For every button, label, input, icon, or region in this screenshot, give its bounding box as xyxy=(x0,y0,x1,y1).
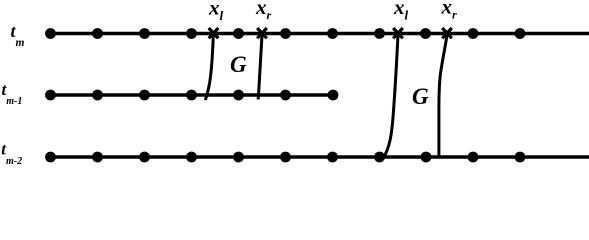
svg-text:tm-2: tm-2 xyxy=(1,140,22,168)
svg-text:G: G xyxy=(230,52,247,77)
curve G1 right (from x_r down to line t_m-1) xyxy=(258,35,262,100)
cross mark x_l (first pair) xyxy=(209,28,219,38)
wire: time line t_m-2 xyxy=(46,155,589,158)
node dots on line t_m xyxy=(45,28,525,39)
svg-text:tm-1: tm-1 xyxy=(2,80,23,107)
curve G2 left (from x_l down to line t_m-2) xyxy=(384,35,399,158)
svg-text:G: G xyxy=(412,84,429,109)
svg-text:xr: xr xyxy=(255,0,272,22)
svg-text:tm: tm xyxy=(11,21,25,49)
svg-text:xr: xr xyxy=(441,0,458,22)
cross mark x_r (first pair) xyxy=(257,28,267,38)
cross mark x_l (second pair) xyxy=(393,28,403,38)
svg-text:xl: xl xyxy=(393,0,409,23)
node dots on line t_m-2 xyxy=(45,152,525,163)
wire: time line t_m-1 xyxy=(46,93,337,96)
curve G2 right (from x_r down to line t_m-2) xyxy=(439,35,447,157)
cross mark x_r (second pair) xyxy=(442,28,452,38)
wire: time line t_m xyxy=(46,32,589,35)
curve G1 left (from x_l down to line t_m-1) xyxy=(205,35,213,100)
node dots on line t_m-1 xyxy=(45,90,338,101)
svg-text:xl: xl xyxy=(208,0,224,23)
